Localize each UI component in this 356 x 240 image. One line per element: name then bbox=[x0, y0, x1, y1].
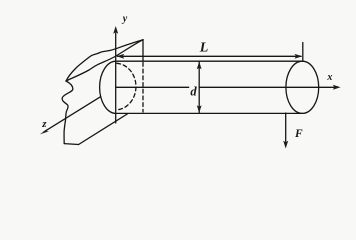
svg-text:x: x bbox=[326, 72, 332, 83]
svg-text:F: F bbox=[294, 128, 303, 140]
svg-text:L: L bbox=[199, 41, 209, 56]
svg-text:z: z bbox=[41, 118, 47, 130]
svg-text:d: d bbox=[190, 84, 197, 98]
svg-text:y: y bbox=[122, 14, 128, 25]
